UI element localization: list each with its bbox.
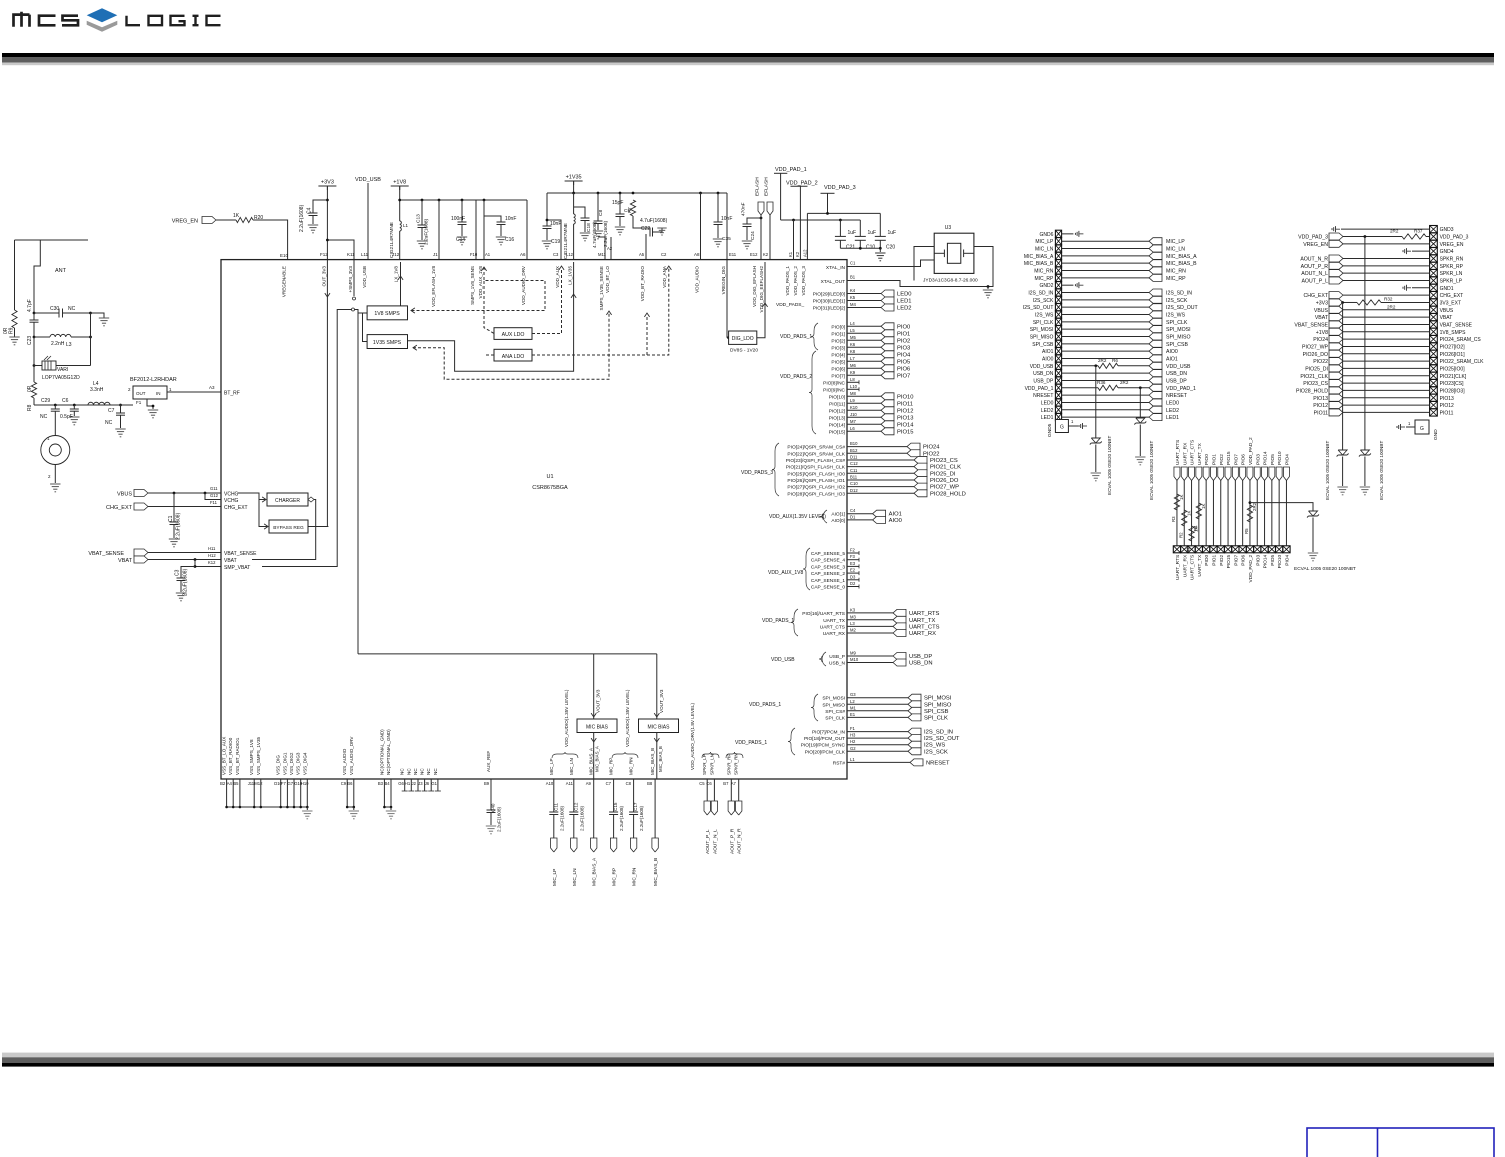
svg-text:UART_TX: UART_TX: [909, 618, 935, 624]
svg-text:VDD_AUX(1.35V LEVEL): VDD_AUX(1.35V LEVEL): [769, 514, 826, 520]
pin 18 AIO0: [1055, 355, 1061, 362]
wire A2 pin: [610, 237, 612, 260]
wire row SPKR_RN: [1343, 257, 1430, 259]
svg-text:C29: C29: [41, 398, 50, 404]
ground D5: [1360, 486, 1370, 488]
resistor R5 2R2: [1249, 501, 1252, 504]
svg-text:R36: R36: [1097, 380, 1106, 385]
resistor R2 1K: [1182, 510, 1187, 526]
svg-text:R5: R5: [1244, 528, 1249, 534]
svg-text:AIO1: AIO1: [1166, 356, 1178, 362]
svg-text:VSS_BT_LO_AUX: VSS_BT_LO_AUX: [222, 737, 227, 775]
top bar: [2, 53, 1494, 57]
net flag UART_RX: [1181, 467, 1187, 481]
svg-text:AUX_REF: AUX_REF: [486, 751, 491, 772]
pin 20 USB_DN: [1055, 369, 1061, 376]
svg-text:SPI_CSB: SPI_CSB: [1166, 342, 1188, 348]
inductor L4 3.3nH: [88, 402, 110, 405]
net flag I2S_WS: [1149, 311, 1162, 318]
svg-text:VDD_PAD_2: VDD_PAD_2: [1248, 437, 1254, 465]
svg-text:PIO7: PIO7: [1233, 454, 1239, 465]
wire to F10: [475, 200, 477, 260]
svg-text:J12: J12: [392, 252, 400, 257]
pin 11 3V3_EXT: [1430, 299, 1438, 306]
wire row 3V3_EXT: [1343, 301, 1357, 303]
svg-text:NRESET: NRESET: [926, 760, 950, 766]
svg-text:MIC_RP: MIC_RP: [1034, 276, 1054, 282]
svg-text:J3: J3: [418, 781, 423, 786]
svg-text:PIO6: PIO6: [1241, 554, 1247, 565]
brace spkr l: [702, 752, 719, 758]
svg-text:LED2: LED2: [897, 306, 912, 312]
net flag MIC_RP: [1149, 274, 1162, 281]
svg-text:AOUT_P_R: AOUT_P_R: [729, 828, 735, 854]
svg-text:UART_RTS: UART_RTS: [1175, 555, 1181, 580]
net flag VBAT_SENSE: [1329, 321, 1343, 328]
svg-text:ECVAL 1005 0SE20 100NBT: ECVAL 1005 0SE20 100NBT: [1149, 441, 1154, 500]
net flag PIO10: [1276, 467, 1282, 481]
svg-text:2.2uF(1608): 2.2uF(1608): [299, 204, 305, 232]
svg-text:MIC_BIAS_A: MIC_BIAS_A: [1166, 254, 1197, 260]
svg-text:F1: F1: [136, 400, 142, 405]
logo mcs: [14, 12, 79, 27]
wire col PIO1: [1212, 481, 1214, 546]
svg-text:VREG_EN: VREG_EN: [1440, 242, 1464, 248]
svg-text:UART_TX: UART_TX: [1197, 442, 1203, 465]
pin 9 PIO7: [1232, 546, 1239, 553]
net flag UART_TX: [1196, 467, 1202, 481]
svg-text:PIO21[CLK]: PIO21[CLK]: [1440, 374, 1467, 380]
wire col PIO0: [1205, 481, 1207, 546]
svg-text:GND5: GND5: [1047, 423, 1053, 437]
brace spkr r: [726, 752, 743, 758]
svg-text:G7: G7: [288, 781, 294, 786]
svg-text:470nF: 470nF: [741, 202, 747, 216]
svg-text:UART_TX: UART_TX: [823, 618, 846, 624]
svg-text:PIO13: PIO13: [1440, 396, 1454, 402]
svg-text:F3: F3: [850, 554, 856, 559]
wire col PIO3: [1256, 481, 1258, 546]
svg-text:PIO5: PIO5: [897, 359, 910, 365]
svg-text:SMPS_1V35_SENSE: SMPS_1V35_SENSE: [599, 266, 604, 310]
net flag SPI_CSB: [908, 707, 921, 714]
svg-text:2R2: 2R2: [1252, 502, 1257, 511]
svg-text:2.2uF(1608): 2.2uF(1608): [579, 806, 584, 831]
pin 25 LED2: [1055, 406, 1061, 413]
net flag AOUT_P_L: [1329, 277, 1343, 284]
block 1V35 SMPS: [367, 335, 407, 349]
net flag PIO23_CS: [914, 456, 927, 463]
svg-text:CAP_SENSE_0: CAP_SENSE_0: [811, 585, 845, 591]
svg-text:PIO24: PIO24: [1313, 337, 1328, 343]
net flag AOUT_N_R: [736, 801, 742, 815]
svg-text:L1: L1: [850, 757, 855, 762]
svg-text:AIO0: AIO0: [889, 518, 902, 524]
varistor VARI LOP7VA05G12D: [34, 365, 42, 367]
pin 4 UART_TX: [1195, 546, 1202, 553]
svg-text:F1: F1: [850, 726, 856, 731]
svg-text:CHG_EXT: CHG_EXT: [1440, 293, 1464, 299]
svg-text:VSS_SMPS_1V8: VSS_SMPS_1V8: [249, 739, 254, 775]
svg-text:SPKR_RP: SPKR_RP: [726, 754, 731, 775]
svg-text:C8: C8: [598, 210, 604, 216]
wire to C3 pin: [547, 220, 561, 260]
net flag LED0: [1149, 399, 1162, 406]
svg-text:PIO[15]: PIO[15]: [829, 429, 845, 435]
pin 7 SPKR_LN: [1430, 269, 1438, 276]
pin 15 PIO10: [1276, 546, 1283, 553]
svg-text:F11: F11: [210, 500, 218, 505]
svg-text:PIO25[IO0]: PIO25[IO0]: [1440, 366, 1466, 372]
wire to A1: [483, 200, 485, 260]
capacitor C10 1uF: [859, 220, 861, 236]
svg-text:USB_DP: USB_DP: [909, 654, 932, 660]
svg-text:VDD_PADS_1: VDD_PADS_1: [785, 266, 790, 296]
capacitor C5 15pF: [619, 193, 621, 214]
svg-text:PIO10: PIO10: [1277, 554, 1283, 568]
svg-text:C24: C24: [750, 231, 756, 240]
wire bypass in: [259, 493, 267, 527]
svg-text:I2S_SCK: I2S_SCK: [924, 749, 948, 755]
svg-text:C12: C12: [850, 461, 858, 466]
capacitor C40 2.2uF(1608): [487, 809, 496, 811]
svg-text:VBUS: VBUS: [1440, 308, 1454, 314]
svg-text:H10: H10: [301, 781, 309, 786]
svg-text:A2: A2: [607, 246, 613, 251]
net flag UART_CTS: [893, 623, 906, 630]
wire 3V3 to K11: [327, 240, 354, 260]
wire row AIO1: [1062, 350, 1149, 352]
svg-text:M12: M12: [254, 781, 263, 786]
net flag PIO10: [881, 393, 894, 400]
wire VCHG2: [205, 493, 221, 500]
pin 18 PIO26[IO1]: [1430, 350, 1438, 357]
net flag MIC_LP: [551, 838, 557, 852]
svg-text:OUT: OUT: [136, 391, 146, 396]
svg-text:VSS_DIG3: VSS_DIG3: [296, 752, 301, 775]
pin 17 PIO27[IO2]: [1430, 343, 1438, 350]
wire row MIC_BIAS_B: [1062, 262, 1149, 264]
svg-text:VOUT_3V3: VOUT_3V3: [596, 689, 601, 713]
svg-text:PIO13: PIO13: [1313, 396, 1328, 402]
svg-text:H12: H12: [208, 553, 216, 558]
wire cap gnd rail: [840, 247, 880, 249]
net flag LED2: [1149, 406, 1162, 413]
svg-text:10nF: 10nF: [505, 216, 516, 222]
node SMPS 3V3 circle: [353, 260, 355, 296]
svg-text:VBAT_SENSE: VBAT_SENSE: [88, 551, 124, 557]
svg-text:VBAT_SENSE: VBAT_SENSE: [1294, 322, 1328, 328]
svg-text:PIO3: PIO3: [897, 345, 910, 351]
svg-text:VREGIN_DIG: VREGIN_DIG: [721, 266, 726, 295]
net flag PIO11: [881, 400, 894, 407]
ground chassis: [1412, 250, 1430, 252]
svg-text:AIO0: AIO0: [1042, 356, 1054, 362]
net flag PIO14: [1262, 467, 1268, 481]
svg-text:C11: C11: [850, 468, 858, 473]
svg-text:MIC_BIAS_A: MIC_BIAS_A: [592, 857, 598, 886]
svg-text:NC: NC: [406, 768, 411, 775]
svg-text:C20: C20: [886, 245, 895, 251]
net flag I2S_SD_IN: [1149, 289, 1162, 296]
net flag PIO0: [881, 323, 894, 330]
svg-text:F2: F2: [850, 548, 856, 553]
svg-text:SPKR_LP: SPKR_LP: [702, 754, 707, 775]
svg-text:2.2uF(1608): 2.2uF(1608): [639, 806, 644, 831]
wire antenna drop: [34, 240, 40, 313]
pin 26 LED1: [1055, 413, 1061, 420]
svg-text:R2: R2: [1178, 532, 1183, 538]
svg-text:PIO5: PIO5: [1270, 554, 1276, 565]
net flag PIO27_WP: [914, 483, 927, 490]
pin 5 MIC_BIAS_B: [1055, 260, 1061, 267]
svg-text:PIO[20]/PCM_CLK: PIO[20]/PCM_CLK: [805, 749, 846, 755]
wire to A5: [645, 234, 647, 260]
svg-text:SPI_MISO: SPI_MISO: [1030, 334, 1054, 340]
svg-text:VDD_AUDIO: VDD_AUDIO: [695, 266, 700, 293]
wire row SPI_MISO: [1062, 335, 1149, 337]
svg-text:+1V8: +1V8: [1316, 330, 1328, 336]
svg-text:H2: H2: [850, 739, 856, 744]
svg-text:BT_RF: BT_RF: [224, 391, 240, 397]
svg-text:PIO[19]/PCM_SYNC: PIO[19]/PCM_SYNC: [801, 743, 846, 749]
svg-text:AOUT_P_R: AOUT_P_R: [1301, 264, 1329, 270]
net flag MIC_RP: [610, 838, 616, 852]
svg-text:C5: C5: [699, 781, 705, 786]
svg-text:PIO0: PIO0: [1204, 554, 1210, 565]
wire vdd_pads bus lower: [781, 219, 861, 221]
pin 24 PIO13: [1430, 394, 1438, 401]
wire row SPKR_LP: [1343, 279, 1430, 281]
wire row MIC_RP: [1062, 277, 1149, 279]
svg-text:PIO15: PIO15: [1226, 554, 1232, 568]
wire xtal shield: [914, 247, 934, 281]
net flag LED2: [881, 304, 894, 311]
svg-text:LED0: LED0: [1166, 400, 1179, 406]
svg-text:SPI_MISO: SPI_MISO: [822, 702, 845, 708]
svg-text:UART_RX: UART_RX: [909, 631, 936, 637]
wire vss rail 1: [227, 806, 308, 808]
svg-text:UART_RTS: UART_RTS: [909, 611, 940, 617]
svg-text:VSS_AUDIO_DRV: VSS_AUDIO_DRV: [349, 736, 354, 775]
wire row AIO0: [1062, 357, 1149, 359]
svg-text:LED0: LED0: [1041, 400, 1054, 406]
svg-text:PIO13: PIO13: [897, 415, 913, 421]
net flag PIO2: [881, 337, 894, 344]
svg-text:PIO15: PIO15: [1226, 451, 1232, 465]
svg-text:VARI: VARI: [57, 367, 68, 373]
wire row VBAT_SENSE: [1343, 323, 1430, 325]
svg-text:LX_1V35: LX_1V35: [568, 266, 573, 285]
svg-text:VDD_PAD_2: VDD_PAD_2: [1248, 554, 1254, 582]
capacitor C18 4.7uF(1608): [574, 207, 585, 218]
node L3 left: [33, 336, 36, 339]
net flag PIO15: [1225, 467, 1231, 481]
svg-text:+SMPS_3V3: +SMPS_3V3: [348, 266, 353, 293]
block MIC BIAS A: [358, 653, 657, 655]
svg-text:B3: B3: [378, 781, 384, 786]
svg-text:PIO[14]: PIO[14]: [829, 422, 845, 428]
svg-text:SPI_MOSI: SPI_MOSI: [924, 696, 952, 702]
svg-text:ECVAL 1005 0SE20 100NBT: ECVAL 1005 0SE20 100NBT: [1107, 436, 1112, 495]
wire row VDD_USB: [1062, 365, 1098, 367]
svg-text:AIO1: AIO1: [889, 512, 902, 518]
svg-text:NC: NC: [400, 768, 405, 775]
svg-text:K12: K12: [208, 560, 216, 565]
svg-text:CAP_SENSE_1: CAP_SENSE_1: [811, 578, 845, 584]
wire row PIO25[IO0]: [1343, 367, 1430, 369]
svg-text:1V8_SMPS: 1V8_SMPS: [1440, 330, 1467, 336]
svg-text:MIC_LP: MIC_LP: [552, 869, 558, 886]
net flag AOUT_P_R: [728, 801, 734, 815]
capacitor C21 1uF: [839, 220, 841, 236]
wire 1V35 sense dashed: [413, 345, 417, 350]
svg-text:MIC_RN: MIC_RN: [632, 867, 638, 886]
svg-text:AUX LDO: AUX LDO: [502, 332, 525, 338]
svg-text:PIO21_CLK: PIO21_CLK: [930, 465, 961, 471]
ground vss3: [390, 807, 392, 810]
pin 10 CHG_EXT: [1430, 291, 1438, 298]
wire row VREG_EN: [1343, 243, 1430, 245]
pin 9 GND1: [1430, 284, 1438, 291]
svg-text:B10: B10: [850, 441, 858, 446]
svg-text:1K: 1K: [1201, 504, 1206, 509]
svg-text:+1V8: +1V8: [393, 180, 406, 186]
net flag AOUT_N_L: [1329, 270, 1343, 277]
wire row USB_DP: [1062, 379, 1149, 381]
capacitor C19 10nF: [546, 193, 548, 226]
capacitor C30 NC: [34, 312, 59, 314]
svg-text:VDD_BT_RADIO: VDD_BT_RADIO: [640, 266, 645, 302]
svg-text:H1: H1: [405, 781, 411, 786]
wire row I2S_SD_IN: [1062, 292, 1149, 294]
svg-text:PIO1: PIO1: [1211, 554, 1217, 565]
svg-text:VDD_AUDIO(1.35V LEVEL): VDD_AUDIO(1.35V LEVEL): [564, 689, 569, 747]
svg-text:VDD_PADS_3: VDD_PADS_3: [801, 266, 806, 296]
net flag I2S_SD_IN: [908, 728, 921, 735]
brace mic lp ln: [552, 752, 578, 758]
pin 26 PIO11: [1430, 409, 1438, 416]
svg-text:PIO2: PIO2: [1219, 454, 1225, 465]
svg-text:PIO24_SRAM_CS: PIO24_SRAM_CS: [1440, 337, 1482, 343]
net flag MIC_BIAS_B: [1149, 260, 1162, 267]
svg-text:SPI_MISO: SPI_MISO: [924, 702, 952, 708]
svg-text:C30: C30: [50, 306, 59, 312]
svg-text:AIO[0]: AIO[0]: [831, 518, 845, 524]
svg-text:CHG_EXT: CHG_EXT: [106, 505, 133, 511]
wire col UART_CTS: [1191, 481, 1193, 546]
svg-text:B2: B2: [220, 781, 226, 786]
svg-text:DV8S - 1V20: DV8S - 1V20: [730, 348, 758, 354]
svg-text:PIO[18]/PCM_OUT: PIO[18]/PCM_OUT: [804, 736, 845, 742]
capacitor C14 100nF: [461, 200, 463, 222]
pin 20 PIO25[IO0]: [1430, 365, 1438, 372]
pin 12 PIO3: [1254, 546, 1261, 553]
resistor R32 2R2: [1341, 301, 1344, 304]
U1 group braces right: [811, 323, 818, 350]
wire BYPASS right: [308, 526, 328, 528]
net flag I2S_SD_OUT: [1149, 304, 1162, 311]
svg-text:PIO[31]/LED[2]: PIO[31]/LED[2]: [813, 306, 845, 312]
svg-text:E12: E12: [750, 252, 758, 257]
svg-text:NC(OPTIONAL_GND): NC(OPTIONAL_GND): [379, 729, 384, 775]
svg-text:PIO27_WP: PIO27_WP: [1302, 344, 1328, 350]
svg-text:A5: A5: [639, 252, 645, 257]
wire row MIC_LN: [1062, 248, 1149, 250]
pin 13 SPI_CLK: [1055, 318, 1061, 325]
svg-text:SPI_CSB: SPI_CSB: [1032, 342, 1054, 348]
svg-text:PIO28_HOLD: PIO28_HOLD: [930, 491, 966, 497]
net flag AOUT_P_R: [1329, 262, 1343, 269]
svg-text:K10: K10: [850, 405, 858, 410]
svg-text:A6: A6: [520, 252, 526, 257]
diode D2 ESD: [1139, 388, 1141, 418]
svg-text:PIO[30]/LED[1]: PIO[30]/LED[1]: [813, 299, 845, 305]
net flag MIC_RN: [630, 838, 636, 852]
svg-text:PIO26_DO: PIO26_DO: [930, 478, 959, 484]
logo LOGIC: [127, 16, 221, 25]
svg-text:2R2: 2R2: [1098, 358, 1107, 363]
wire row MIC_BIAS_A: [1062, 255, 1149, 257]
net flag USB_DN: [1149, 370, 1162, 377]
logo diamond: [87, 8, 118, 22]
net flag AOUT_N_L: [711, 801, 717, 815]
net flag PIO27_WP: [1329, 343, 1343, 350]
wire col PIO7: [1234, 481, 1236, 546]
svg-text:F7: F7: [281, 781, 287, 786]
svg-text:SPKR_RN: SPKR_RN: [734, 753, 739, 775]
svg-text:CHARGER: CHARGER: [275, 498, 300, 504]
net flag PIO12: [1329, 402, 1343, 409]
svg-text:I2S_WS: I2S_WS: [1166, 312, 1186, 318]
ground D4: [1337, 486, 1347, 488]
wire col UART_RTS: [1176, 481, 1178, 546]
svg-text:LED1: LED1: [897, 299, 912, 305]
pin 13 VBAT: [1430, 313, 1438, 320]
svg-text:SPI_CLK: SPI_CLK: [1166, 320, 1188, 326]
wire row I2S_WS: [1062, 313, 1149, 315]
svg-text:IN: IN: [156, 391, 161, 396]
svg-text:PIO[2]: PIO[2]: [831, 338, 845, 344]
svg-text:MIC_BIAS_A: MIC_BIAS_A: [595, 746, 600, 772]
net flag VDD_PAD_2: [1247, 467, 1253, 481]
wire 1v35 bus: [573, 181, 575, 193]
svg-text:NC: NC: [105, 420, 113, 426]
wire BT_RF: [167, 391, 221, 393]
svg-text:EFLASH: EFLASH: [755, 177, 761, 196]
wire LX_1V35 route: [408, 262, 574, 371]
net flag I2S_SD_OUT: [908, 735, 921, 742]
svg-text:K5: K5: [850, 295, 856, 300]
svg-text:R4: R4: [1193, 525, 1198, 531]
svg-text:M6: M6: [850, 363, 856, 368]
svg-text:H3: H3: [850, 733, 856, 738]
svg-text:PIO[9]/NC: PIO[9]/NC: [823, 387, 845, 393]
svg-text:AOUT_N_R: AOUT_N_R: [737, 828, 743, 854]
svg-text:CHG_EXT: CHG_EXT: [224, 505, 248, 511]
net flag SPI_CLK: [908, 714, 921, 721]
svg-text:VBAT_SENSE: VBAT_SENSE: [224, 551, 257, 557]
svg-text:B4: B4: [385, 781, 391, 786]
wire C30 right to ground: [89, 312, 92, 315]
pin 2 MIC_LP: [1055, 238, 1061, 245]
svg-text:F12: F12: [320, 252, 328, 257]
svg-text:PIO[3]: PIO[3]: [831, 345, 845, 351]
svg-text:PIO14: PIO14: [1263, 554, 1269, 568]
svg-text:PIO[25]/QSPI_FLASH_IO0: PIO[25]/QSPI_FLASH_IO0: [787, 471, 845, 477]
wire to A6: [526, 200, 528, 260]
net flag UART_RTS: [1174, 467, 1180, 481]
